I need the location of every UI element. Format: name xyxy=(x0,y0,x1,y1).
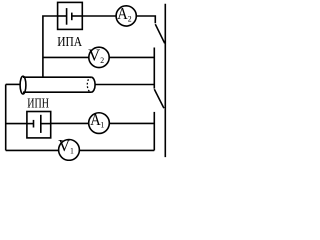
phototube right end cap front arc xyxy=(91,77,95,92)
battery cell inside ИПН: long plate xyxy=(40,115,42,133)
svg-text:1: 1 xyxy=(100,120,104,129)
ammeter A2 body xyxy=(116,6,136,26)
inner rail wire (lower segment) xyxy=(153,112,155,150)
battery cell inside ИПА: left lead xyxy=(58,15,67,17)
inner rail wire (upper segment) xyxy=(153,48,155,89)
wire: A2 to switch S1 fixed contact xyxy=(136,16,155,23)
svg-text:2: 2 xyxy=(100,56,104,65)
svg-text:1: 1 xyxy=(70,146,74,155)
svg-text:A: A xyxy=(117,5,128,23)
battery cell inside ИПА: short plate xyxy=(71,13,73,21)
left rail wire xyxy=(5,84,7,150)
svg-text:2: 2 xyxy=(128,14,132,23)
power supply box ИПН xyxy=(27,112,51,138)
battery cell inside ИПН: short plate xyxy=(33,120,35,128)
wire: node at anode column to voltmeter V2 xyxy=(43,56,89,58)
battery cell inside ИПА: long plate xyxy=(66,8,68,25)
svg-text:ИПН: ИПН xyxy=(27,95,49,111)
wire: A1 to inner rail xyxy=(109,122,154,124)
switch S2 open blade xyxy=(154,89,164,108)
svg-text:V: V xyxy=(88,46,100,65)
phototube left end cap xyxy=(20,76,26,94)
battery cell inside ИПА: right lead xyxy=(72,15,83,17)
right outer rail wire xyxy=(164,4,166,157)
wire: phototube cathode to left rail xyxy=(6,83,21,85)
switch S1 open blade xyxy=(155,24,164,43)
wire: left rail to voltmeter V1 (bottom wire left) xyxy=(6,149,59,151)
wire: V1 to inner rail (bottom wire right) xyxy=(79,149,154,151)
battery cell inside ИПН: left lead xyxy=(27,123,34,125)
phototube right end cap hidden arc (dashed) xyxy=(87,77,91,92)
phototube body top xyxy=(23,76,91,78)
wire: ИПН to ammeter A1 xyxy=(51,122,89,124)
voltmeter V1 body xyxy=(59,140,80,161)
ammeter A1 body xyxy=(89,113,110,134)
battery cell inside ИПН: right lead xyxy=(41,123,51,125)
svg-text:V: V xyxy=(58,136,70,155)
phototube body bottom xyxy=(23,91,91,93)
wire: V2 to inner rail xyxy=(109,56,154,58)
wire: ИПА left terminal to anode (tube top), with corner xyxy=(43,16,58,77)
svg-text:ИПА: ИПА xyxy=(57,34,83,49)
wire: ИПА right terminal to ammeter A2 xyxy=(82,15,116,17)
wire: phototube right cap to inner rail xyxy=(95,84,154,86)
power supply box ИПА xyxy=(58,2,83,29)
voltmeter V2 body xyxy=(89,47,109,67)
wire: left rail to ИПН box xyxy=(6,123,27,125)
